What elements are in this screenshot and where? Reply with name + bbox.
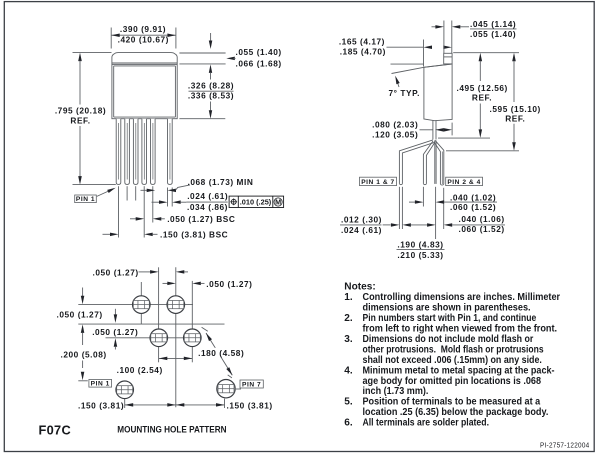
svg-text:.050 (1.27): .050 (1.27) [92, 327, 138, 337]
construction centerlines (hole pattern) [78, 304, 193, 306]
side view - stem below body [432, 121, 434, 140]
dim .150 (3.81) right [176, 404, 225, 406]
dim .040 (1.06)/.060 (1.52) right pin [402, 223, 411, 227]
svg-text:.495 (12.56): .495 (12.56) [457, 83, 508, 93]
svg-text:.326 (8.28): .326 (8.28) [188, 80, 234, 90]
svg-text:location .25 (6.35) below the: location .25 (6.35) below the package bo… [363, 407, 549, 418]
dim .040 (1.02)/.060 (1.52) [409, 201, 415, 203]
svg-text:6.: 6. [344, 418, 353, 429]
svg-text:.060 (1.52): .060 (1.52) [450, 202, 496, 212]
svg-text:Pin numbers start with Pin 1,: Pin numbers start with Pin 1, and contin… [363, 313, 537, 324]
PIN 1 & 7 label [360, 177, 397, 185]
svg-text:.066 (1.68): .066 (1.68) [236, 59, 282, 69]
svg-text:REF.: REF. [70, 115, 90, 125]
dim .045/.055 tab width [443, 21, 445, 54]
dim .595 REF [512, 53, 516, 62]
svg-text:.024 (.61): .024 (.61) [187, 191, 228, 201]
svg-text:.080 (2.03): .080 (2.03) [372, 119, 418, 129]
svg-text:.068 (1.73) MIN: .068 (1.73) MIN [188, 177, 254, 187]
svg-text:.050 (1.27): .050 (1.27) [57, 309, 103, 319]
svg-text:dimensions are shown in parent: dimensions are shown in parentheses. [363, 303, 531, 314]
svg-text:.055 (1.40): .055 (1.40) [236, 47, 282, 57]
svg-text:other protrusions. Mold flash: other protrusions. Mold flash or protrus… [363, 344, 544, 355]
svg-text:age body for omitted pin locat: age body for omitted pin locations is .0… [363, 376, 542, 387]
dim .050 (1.27) hole offset top-right [163, 282, 168, 284]
svg-text:F07C: F07C [39, 423, 72, 438]
svg-text:3.: 3. [344, 334, 353, 345]
svg-text:4.: 4. [344, 365, 353, 376]
svg-text:.180 (4.58): .180 (4.58) [198, 348, 244, 358]
svg-text:REF.: REF. [505, 113, 525, 123]
svg-text:.010 (.25): .010 (.25) [240, 198, 272, 207]
dim .055/.066 cap height [179, 52, 225, 54]
front view pins 1-5 and 7 [116, 119, 121, 185]
svg-text:.024 (.61): .024 (.61) [341, 225, 382, 235]
svg-text:Dimensions do not include mold: Dimensions do not include mold flash or [363, 334, 534, 345]
side view - 7 deg draft construction [391, 63, 424, 65]
svg-text:Minimum metal to metal spacing: Minimum metal to metal spacing at the pa… [363, 365, 555, 376]
dim .050 (1.27) row offset left [82, 288, 84, 297]
side view - tab on top [444, 53, 452, 64]
svg-text:.150 (3.81) BSC: .150 (3.81) BSC [160, 230, 228, 240]
svg-text:.390 (9.91): .390 (9.91) [120, 24, 166, 34]
PIN 1 label (hole pattern) [89, 380, 112, 388]
svg-text:Notes:: Notes: [344, 282, 375, 293]
svg-text:PIN 7: PIN 7 [242, 381, 261, 388]
svg-text:.150 (3.81): .150 (3.81) [78, 400, 124, 410]
dim .150 (3.81) BSC [103, 233, 111, 235]
svg-text:.050 (1.27): .050 (1.27) [93, 268, 139, 278]
svg-text:1.: 1. [344, 292, 353, 303]
PIN 1 label (front view) [75, 195, 97, 203]
svg-text:.190 (4.83): .190 (4.83) [397, 240, 443, 250]
dim .024/.034 pin width [152, 201, 160, 203]
svg-text:PIN 1: PIN 1 [76, 196, 95, 203]
svg-text:MOUNTING HOLE PATTERN: MOUNTING HOLE PATTERN [117, 425, 226, 435]
svg-text:2.: 2. [344, 313, 353, 324]
mounting hole PIN7 [217, 380, 235, 398]
PIN 7 label (hole pattern) [236, 388, 241, 390]
svg-text:.150 (3.81): .150 (3.81) [227, 400, 273, 410]
dim .050 (1.27) BSC pin pitch [130, 218, 136, 220]
dim .795 REF overall height [73, 52, 112, 54]
svg-text:Controlling dimensions are inc: Controlling dimensions are inches. Milli… [363, 292, 561, 303]
mounting hole PIN1 [116, 381, 134, 399]
package front view - body outline [112, 64, 177, 118]
svg-text:.336 (8.53): .336 (8.53) [188, 90, 234, 100]
dim .050 (1.27) row2 offset [114, 309, 116, 315]
package front view - cap bottom line [112, 62, 177, 64]
svg-text:.055 (1.40): .055 (1.40) [470, 29, 516, 39]
side view pin bends (fan) [399, 140, 433, 184]
svg-text:PIN 1: PIN 1 [91, 381, 110, 388]
svg-text:All terminals are solder plate: All terminals are solder plated. [363, 418, 490, 429]
side pin extension lines [398, 187, 400, 229]
package front view - body inner lines [114, 65, 176, 67]
mounting hole A2 [167, 296, 185, 314]
svg-text:PI-2757-122004: PI-2757-122004 [540, 440, 590, 449]
svg-text:.040 (1.06): .040 (1.06) [459, 214, 505, 224]
svg-text:inch (1.73 mm).: inch (1.73 mm). [363, 386, 429, 397]
svg-text:.420 (10.67): .420 (10.67) [118, 34, 169, 44]
PIN 2 & 4 label [446, 177, 483, 185]
svg-text:7° TYP.: 7° TYP. [389, 88, 420, 98]
side view - body outline [424, 64, 452, 121]
svg-text:.100 (2.54): .100 (2.54) [117, 365, 163, 375]
dim .495 REF [453, 52, 519, 54]
dim .200 (5.08) [82, 333, 84, 345]
svg-text:.185 (4.70): .185 (4.70) [340, 47, 386, 57]
svg-text:from left to right when viewed: from left to right when viewed from the … [363, 324, 558, 335]
svg-text:.210 (5.33): .210 (5.33) [397, 250, 443, 260]
svg-text:5.: 5. [344, 397, 353, 408]
dim .180 (4.58) diagonal [206, 333, 232, 375]
svg-text:.045 (1.14): .045 (1.14) [470, 19, 516, 29]
mounting hole B2 [184, 329, 202, 347]
svg-text:Position of terminals to be me: Position of terminals to be measured at … [363, 397, 541, 408]
svg-text:.165 (4.17): .165 (4.17) [339, 36, 385, 46]
svg-text:PIN 1 & 7: PIN 1 & 7 [361, 179, 395, 186]
front pin extension lines [118, 186, 120, 237]
dim .326/.336 body height [179, 118, 225, 120]
dim .068 (1.73) MIN [141, 189, 150, 191]
GD&T true position frame [229, 196, 284, 207]
svg-text:.795 (20.18): .795 (20.18) [55, 105, 106, 115]
svg-text:PIN 2 & 4: PIN 2 & 4 [447, 179, 481, 186]
svg-text:REF.: REF. [472, 93, 492, 103]
svg-text:.050 (1.27): .050 (1.27) [206, 279, 252, 289]
svg-text:.034 (.86): .034 (.86) [187, 202, 228, 212]
svg-text:.200 (5.08): .200 (5.08) [61, 350, 107, 360]
svg-text:.050 (1.27) BSC: .050 (1.27) BSC [167, 214, 235, 224]
svg-text:.040 (1.02): .040 (1.02) [450, 192, 496, 202]
dim .100 (2.54) [159, 357, 193, 359]
mounting hole B1 [150, 329, 168, 347]
svg-text:.120 (3.05): .120 (3.05) [372, 129, 418, 139]
mounting hole A1 [133, 296, 151, 314]
svg-text:.060 (1.52): .060 (1.52) [459, 224, 505, 234]
svg-text:shall not exceed .006 (.15mm): shall not exceed .006 (.15mm) on any sid… [363, 355, 543, 366]
svg-text:.012 (.30): .012 (.30) [341, 214, 382, 224]
package front view - cap outline [112, 53, 177, 64]
